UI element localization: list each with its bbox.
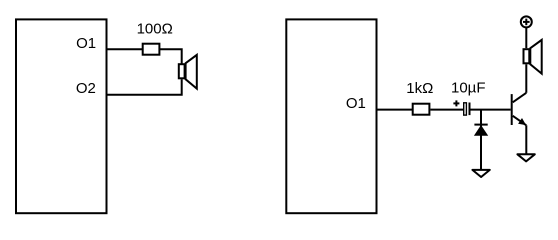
polarity mark + [453,100,459,106]
wire capacitor to base [471,109,511,111]
wire collector to speaker [525,64,527,93]
resistor 1kΩ [413,104,430,115]
svg-text:100Ω: 100Ω [137,20,173,37]
module box (right) [286,19,376,213]
svg-text:O1: O1 [76,35,96,52]
ground (below diode) [472,170,489,177]
svg-text:1kΩ: 1kΩ [406,80,433,97]
wire resistor to capacitor [430,109,463,111]
transistor Q1 (NPN) [512,93,527,126]
wire emitter to ground [525,125,527,154]
wire power to speaker [525,28,527,48]
wire O1 to resistor [377,109,413,111]
capacitor 10µF [464,103,470,116]
power supply + terminal [521,16,532,27]
speaker LS2 [524,40,542,74]
module box (left) [16,19,107,213]
wire O1 to resistor [107,48,143,50]
speaker LS1 [179,55,197,89]
svg-text:O1: O1 [346,95,366,112]
ground (below emitter) [517,154,534,161]
wire resistor to speaker top [160,49,182,64]
diode (clamp, cathode up) [474,125,488,136]
resistor 100Ω [143,44,160,55]
svg-text:10µF: 10µF [451,80,486,97]
wire junction to diode/ground [480,110,482,170]
svg-text:O2: O2 [76,80,96,97]
wire speaker bottom to O2 [107,79,182,94]
